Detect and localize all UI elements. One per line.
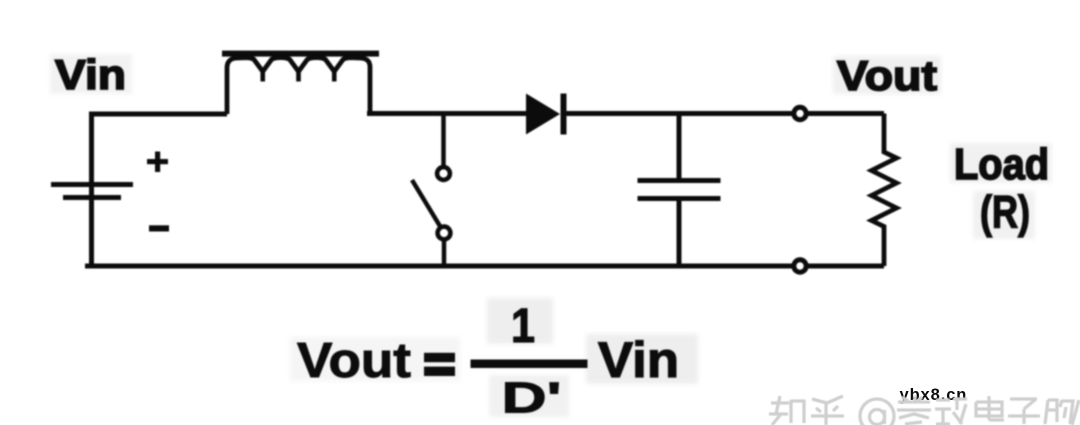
svg-text:Vin: Vin [55,51,126,98]
wire: battery vertical (left branch) [89,112,94,267]
diode D1 cathode bar [561,94,567,135]
capacitor C1 bottom plate [638,196,721,201]
glyph at-sign [860,399,894,425]
capacitor C1 top plate [638,178,721,183]
watermark zhihu (gray CJK drawn as strokes) [769,396,1079,425]
switch S1 lower contact [438,227,451,240]
svg-text:Vin: Vin [598,332,679,388]
wire: top-right rail terminal to load [808,111,884,116]
wire: top rail diode to top output terminal [565,111,792,116]
inductor L1 winding [227,58,370,114]
battery plus label [147,152,168,173]
wire: capacitor upper lead [677,114,682,180]
svg-text:(R): (R) [980,187,1030,238]
glyph ai [897,396,931,424]
formula fraction bar [471,360,588,369]
glyph wan [935,399,967,424]
battery V1 negative plate [63,195,121,200]
inductor L1 core bar [222,51,379,57]
battery V1 positive plate [51,182,133,187]
svg-text:1: 1 [511,300,535,353]
diode D1 triangle [526,94,560,135]
switch S1 upper contact [437,167,450,180]
wire: top-left rail from battery to inductor [89,112,227,117]
wire: bottom-right rail terminal to load [808,264,884,269]
glyph zi [1008,399,1040,424]
wire: switch lower lead [442,240,447,266]
battery minus label [149,225,169,231]
svg-text:D': D' [502,374,562,423]
glyph zhi [769,396,804,425]
glyph de [1045,400,1073,424]
svg-text:Vout: Vout [837,52,937,99]
wire: capacitor lower lead [677,200,682,266]
wire: top rail inductor to diode [367,111,527,116]
node: top output terminal [794,107,806,119]
switch S1 blade [412,180,441,227]
inductor L1 winding dip stems [263,69,335,82]
wire: bottom rail left (battery to bottom output terminal) [85,264,792,269]
node: bottom output terminal [794,260,806,272]
svg-text:Vout: Vout [297,333,411,388]
glyph dian [976,396,1004,420]
svg-text:Load: Load [954,140,1049,189]
glyph slash partial [1072,400,1079,425]
wire: switch upper lead [441,114,446,167]
glyph hu [811,396,844,425]
resistor load R zigzag with leads [872,114,897,267]
formula equals sign [424,353,455,376]
